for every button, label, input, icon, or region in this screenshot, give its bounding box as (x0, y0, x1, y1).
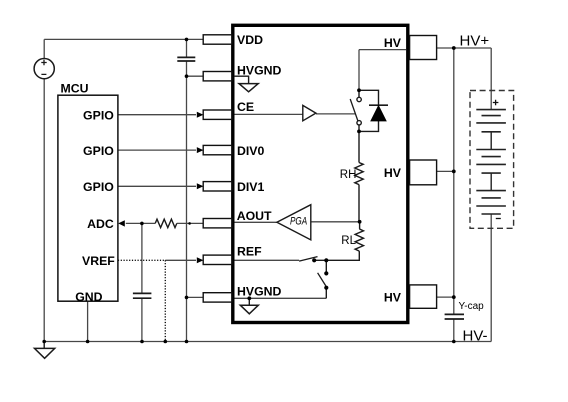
svg-text:REF: REF (237, 245, 262, 259)
svg-text:DIV1: DIV1 (237, 180, 264, 194)
svg-text:AOUT: AOUT (237, 209, 272, 223)
svg-text:MCU: MCU (61, 82, 89, 96)
svg-text:RL: RL (341, 235, 356, 247)
svg-text:HV+: HV+ (460, 32, 490, 49)
svg-text:HVGND: HVGND (237, 284, 282, 298)
svg-text:GND: GND (75, 290, 102, 304)
svg-text:GPIO: GPIO (83, 180, 114, 194)
svg-text:GPIO: GPIO (83, 144, 114, 158)
svg-text:VREF: VREF (82, 254, 115, 268)
svg-text:GPIO: GPIO (83, 109, 114, 123)
svg-text:HV: HV (384, 166, 402, 180)
svg-text:HV-: HV- (463, 327, 488, 344)
svg-text:ADC: ADC (87, 217, 114, 231)
svg-text:DIV0: DIV0 (237, 144, 264, 158)
svg-text:Y-cap: Y-cap (459, 301, 485, 312)
svg-text:HV: HV (384, 290, 402, 304)
svg-text:CE: CE (237, 100, 254, 114)
svg-text:RH: RH (340, 169, 357, 181)
svg-text:VDD: VDD (237, 33, 263, 47)
svg-text:HVGND: HVGND (237, 64, 282, 78)
svg-text:PGA: PGA (290, 215, 307, 227)
svg-text:HV: HV (384, 36, 402, 50)
